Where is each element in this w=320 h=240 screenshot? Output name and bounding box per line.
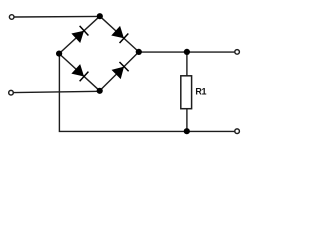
node right (junction dot) (136, 49, 142, 55)
terminal left-middle (open circle) (9, 90, 14, 95)
wire left-middle terminal to bottom node (14, 91, 100, 92)
diode D1 (left node to top node) (71, 26, 88, 43)
wire bridge edge left-top (59, 16, 100, 53)
wire bridge edge left-bottom (59, 54, 100, 91)
diode D4 (bottom node to right node) (112, 62, 129, 79)
wire R1 bottom stub (186, 109, 188, 132)
node left (junction dot) (56, 51, 62, 57)
node R1 top (junction dot) (184, 49, 190, 55)
wire right node to top-right terminal (139, 51, 234, 53)
node top (junction dot) (97, 13, 103, 19)
wire top-left terminal to top node (15, 15, 100, 18)
diode D3 (left node to bottom node) (71, 64, 88, 81)
wire bottom rail (59, 54, 234, 132)
wire R1 top stub (186, 52, 188, 76)
node R1 bottom (junction dot) (184, 128, 190, 134)
terminal bottom-right (open circle) (235, 129, 240, 134)
terminal top-right (open circle) (235, 50, 240, 55)
resistor R1 (181, 76, 192, 109)
node bottom (junction dot) (97, 88, 103, 94)
wire bridge edge bottom-right (100, 52, 139, 91)
wire bridge edge top-right (100, 16, 139, 52)
terminal top-left (open circle) (9, 15, 14, 20)
diode D2 (top node to right node) (111, 26, 128, 43)
svg-text:R1: R1 (195, 87, 206, 97)
